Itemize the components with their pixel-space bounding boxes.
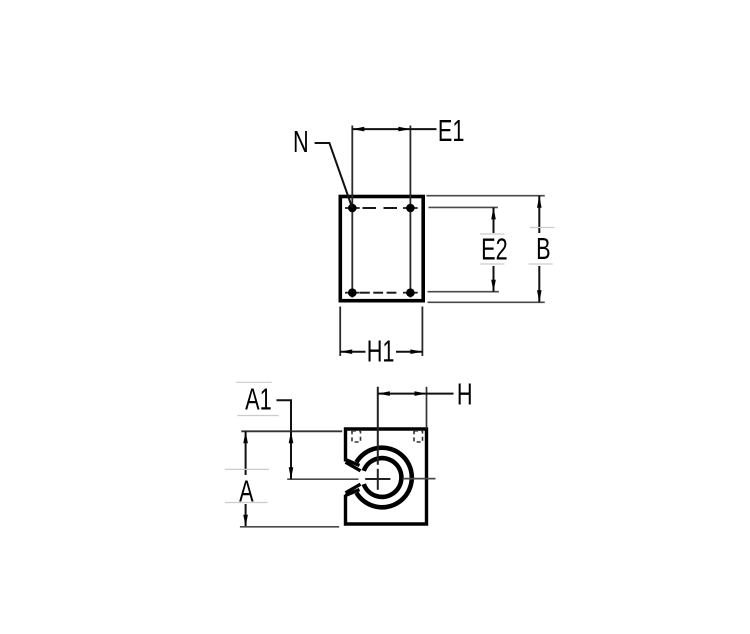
- dimension E2 line: [491, 207, 496, 291]
- extension line B top: [426, 195, 544, 197]
- hole center tick marks: [345, 208, 418, 293]
- hidden mounting hole left (dashed): [352, 431, 361, 442]
- center mark cross: [365, 469, 390, 490]
- extension/center line left column: [351, 126, 353, 298]
- centerline left segment: [287, 478, 358, 480]
- svg-text:H: H: [457, 377, 473, 412]
- slot upper jaw: [346, 462, 361, 471]
- faint mask lines around A: [225, 469, 269, 502]
- extension line E2 bottom: [428, 291, 499, 293]
- leader A1: [277, 400, 292, 431]
- svg-text:B: B: [536, 231, 550, 266]
- hole N top-left: [348, 204, 357, 213]
- dimension B line: [537, 196, 542, 303]
- outer bore arc: [356, 448, 411, 508]
- extension line H1 right: [421, 307, 423, 357]
- extension/center line right column: [409, 126, 411, 298]
- dimension H line: [378, 391, 454, 396]
- hole bottom-right: [406, 288, 415, 297]
- vertical centerline: [377, 387, 379, 465]
- svg-text:A: A: [239, 474, 254, 509]
- dimension A line: [243, 431, 248, 527]
- svg-text:E2: E2: [481, 232, 508, 267]
- top view housing outline: [340, 197, 423, 301]
- bottom view block outline with open slot: [346, 429, 427, 524]
- extension line E2 top: [429, 206, 498, 208]
- extension line A bottom: [240, 526, 339, 528]
- faint mask lines around B: [529, 228, 555, 265]
- slot mouth upper lip: [346, 460, 360, 466]
- extension line top (block top): [241, 430, 342, 432]
- hole bottom-left: [348, 288, 357, 297]
- hole top-right: [406, 204, 415, 213]
- faint mask lines around A1: [236, 382, 279, 415]
- slot lower jaw: [346, 484, 361, 493]
- svg-text:N: N: [293, 124, 309, 159]
- extension line B bottom: [428, 301, 545, 303]
- extension line H right: [426, 387, 428, 429]
- svg-text:A1: A1: [245, 382, 272, 417]
- leader N: [315, 143, 353, 208]
- dimension A1 line: [289, 431, 294, 479]
- inner bore arc: [364, 458, 402, 497]
- centerline right segment: [403, 478, 436, 480]
- hidden mounting hole right (dashed): [414, 431, 423, 442]
- extension line H1 left: [339, 307, 341, 357]
- dimension H1 line: [340, 349, 422, 354]
- hidden hole line top (dashed): [363, 207, 398, 209]
- dimension E1 line: [352, 127, 436, 132]
- svg-text:H1: H1: [367, 334, 395, 369]
- hidden hole line bottom (dashed): [360, 292, 396, 294]
- slot mouth lower lip: [346, 490, 360, 496]
- svg-text:E1: E1: [438, 113, 465, 148]
- faint mask lines around E2: [480, 234, 505, 264]
